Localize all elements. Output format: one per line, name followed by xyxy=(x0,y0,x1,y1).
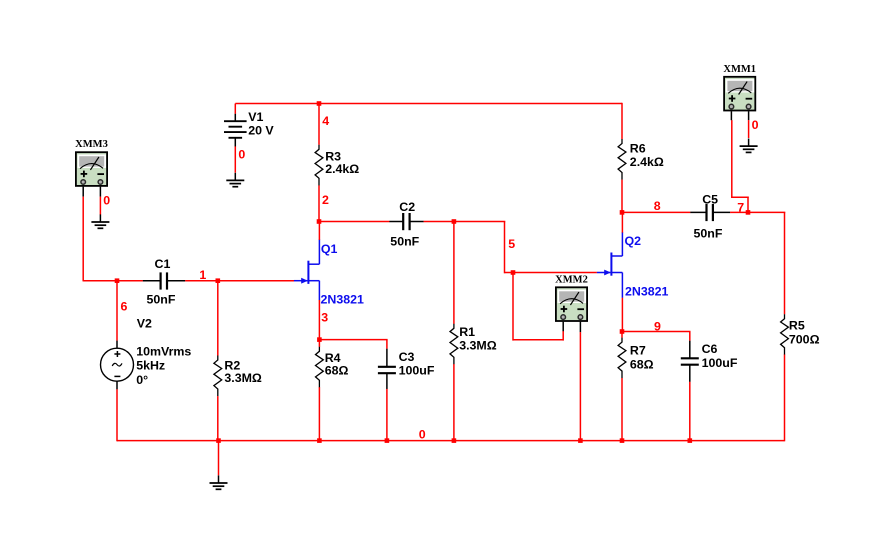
wire net 5 horizontal to Q2 gate xyxy=(505,272,597,274)
net label 0 at bottom rail xyxy=(419,428,426,442)
AC source V2 xyxy=(101,341,134,390)
capacitor C3 xyxy=(378,349,396,389)
net label 0 at V1 xyxy=(238,148,245,162)
designator label Q2 xyxy=(625,234,642,248)
svg-text:0: 0 xyxy=(238,148,245,162)
wire net 6 XMM3 plus vertical xyxy=(82,197,84,282)
svg-text:2.4kΩ: 2.4kΩ xyxy=(325,162,359,176)
junction net 0 at R4 xyxy=(317,438,322,443)
net label 3 xyxy=(321,311,328,325)
value label R2 3.3MOhm xyxy=(224,359,262,385)
net label 0 at XMM3 xyxy=(103,194,110,208)
wire net 0 below R4 xyxy=(318,387,320,441)
battery V1 xyxy=(224,114,247,147)
junction net 0 at ground xyxy=(216,438,221,443)
wire net 4 R3 top vertical xyxy=(318,103,320,145)
svg-text:1: 1 xyxy=(199,268,206,282)
wire net 4 top rail horizontal xyxy=(235,103,622,105)
svg-text:8: 8 xyxy=(654,199,661,213)
wire net 3 Q1 source vertical xyxy=(318,300,320,340)
svg-text:R1: R1 xyxy=(459,325,475,339)
value label R1 3.3MOhm xyxy=(459,325,497,353)
wire net 1 horizontal xyxy=(185,280,294,282)
Q1 source lead vertical xyxy=(318,281,320,301)
net label 7 xyxy=(737,201,744,215)
resistor R7 xyxy=(618,338,626,379)
Q1 drain lead vertical xyxy=(318,239,320,264)
wire net 0 below R7 xyxy=(621,378,623,441)
value label V1 20 V xyxy=(248,110,274,137)
XMM2 plus terminal lead xyxy=(562,322,564,332)
svg-text:3: 3 xyxy=(321,311,328,325)
value label C2 50nF xyxy=(390,200,419,248)
instrument label XMM2 xyxy=(555,274,588,285)
wire net 8 R6 bottom vertical xyxy=(621,180,623,214)
svg-text:4: 4 xyxy=(322,114,329,128)
svg-text:3.3MΩ: 3.3MΩ xyxy=(459,339,497,353)
svg-text:50nF: 50nF xyxy=(390,235,419,249)
svg-text:100uF: 100uF xyxy=(399,364,435,378)
wire net 0 below R5 xyxy=(784,355,786,442)
wire net 9 horizontal xyxy=(622,331,691,333)
svg-text:5: 5 xyxy=(508,237,515,251)
value label R4 68Ohm xyxy=(325,351,349,378)
svg-text:0: 0 xyxy=(103,194,110,208)
wire net 3 R4 top vertical xyxy=(318,340,320,347)
svg-text:50nF: 50nF xyxy=(694,227,723,241)
wire net 5 XMM2 plus vertical xyxy=(562,331,564,341)
value label R6 2.4kOhm xyxy=(630,142,664,170)
XMM3 plus terminal lead xyxy=(82,187,84,197)
XMM2 minus terminal lead xyxy=(579,322,581,333)
svg-text:20 V: 20 V xyxy=(248,123,274,137)
wire net 2 Q1 drain vertical xyxy=(318,222,320,240)
junction net 0 at C6 xyxy=(688,438,693,443)
svg-text:XMM1: XMM1 xyxy=(723,64,756,75)
resistor R4 xyxy=(316,347,324,388)
Q2 source lead vertical xyxy=(621,273,623,298)
net label 5 xyxy=(508,237,515,251)
capacitor C2 xyxy=(389,213,423,230)
wire net 7 R5 top vertical xyxy=(784,212,786,314)
wire net 0 below R1 xyxy=(453,364,455,441)
svg-text:100uF: 100uF xyxy=(702,356,738,370)
junction net 0 at C3 xyxy=(385,438,390,443)
svg-text:0°: 0° xyxy=(136,373,148,387)
instrument label XMM3 xyxy=(75,139,108,150)
multimeter XMM3 xyxy=(76,152,107,186)
svg-text:2.4kΩ: 2.4kΩ xyxy=(630,155,664,169)
net label 9 xyxy=(654,320,661,334)
wire net 6 V2 top vertical xyxy=(116,281,118,341)
wire net 4 R6 top vertical xyxy=(621,103,623,139)
svg-text:0: 0 xyxy=(419,428,426,442)
wire net 9 R7 top vertical xyxy=(621,332,623,338)
wire net 4 V1 top vertical xyxy=(234,104,236,114)
junction net 0 at R7 xyxy=(620,438,625,443)
resistor R5 xyxy=(781,314,789,355)
svg-text:XMM2: XMM2 xyxy=(555,274,588,285)
wire net 9 Q2 source vertical xyxy=(621,298,623,332)
net label 0 at XMM1 xyxy=(752,118,759,132)
multimeter XMM2 xyxy=(556,287,587,321)
wire net 7 horizontal xyxy=(730,211,785,213)
wire net 0 below V1 xyxy=(234,146,236,172)
wire net 0 below V2 xyxy=(116,389,118,441)
svg-text:3.3MΩ: 3.3MΩ xyxy=(224,371,262,385)
svg-text:C1: C1 xyxy=(155,257,171,271)
capacitor C6 xyxy=(681,341,699,382)
Q2 drain lead vertical xyxy=(621,232,623,256)
wire net 0 ground drop xyxy=(218,441,220,476)
svg-text:0: 0 xyxy=(752,118,759,132)
junction net 6 at V2 xyxy=(115,278,120,283)
junction net 5 at XMM2 tap xyxy=(511,270,516,275)
net label 2 xyxy=(322,193,329,207)
ground below bottom rail xyxy=(210,475,228,489)
wire net 2 R3 bottom vertical xyxy=(318,185,320,222)
wire net 6 horizontal xyxy=(83,280,143,282)
svg-text:Q1: Q1 xyxy=(321,242,338,256)
resistor R1 xyxy=(450,324,458,365)
svg-text:C5: C5 xyxy=(702,193,718,207)
wire net 0 bottom rail xyxy=(117,440,785,442)
svg-text:R7: R7 xyxy=(630,344,646,358)
wire net 1 R2 top vertical xyxy=(217,281,219,356)
wire net 0 XMM3 minus xyxy=(99,197,101,215)
value label C5 50nF xyxy=(694,193,723,241)
svg-text:R6: R6 xyxy=(630,142,646,156)
ground below XMM3 xyxy=(91,214,109,228)
svg-text:10mVrms: 10mVrms xyxy=(136,344,191,358)
resistor R3 xyxy=(315,145,323,186)
junction net 2 xyxy=(317,219,322,224)
svg-text:2N3821: 2N3821 xyxy=(321,293,365,307)
wire net 8 horizontal to C5 xyxy=(622,211,690,213)
capacitor C5 xyxy=(690,204,730,221)
junction net 4 at R3 xyxy=(317,101,322,106)
wire net 7 XMM1 branch horizontal xyxy=(731,196,749,198)
svg-text:6: 6 xyxy=(121,300,128,314)
net label 1 xyxy=(199,268,206,282)
net label 4 xyxy=(322,114,329,128)
svg-text:5kHz: 5kHz xyxy=(136,359,165,373)
junction net 1 at R2 xyxy=(216,278,221,283)
value label C3 100uF xyxy=(399,350,435,378)
junction net 0 at R1 xyxy=(452,438,457,443)
junction net 3 xyxy=(317,337,322,342)
wire net 5 XMM2 tap horizontal xyxy=(513,339,563,341)
wire net 5 vertical drop xyxy=(504,222,506,274)
value label R5 700Ohm xyxy=(789,319,820,347)
svg-text:68Ω: 68Ω xyxy=(630,358,654,372)
transistor Q1 xyxy=(294,261,320,284)
designator label Q1 xyxy=(321,242,338,256)
net label 6 xyxy=(121,300,128,314)
wire net 0 below R2 xyxy=(217,396,219,441)
wire net 5 horizontal upper xyxy=(424,221,506,223)
XMM1 minus terminal lead xyxy=(748,111,750,120)
svg-text:Q2: Q2 xyxy=(625,234,642,248)
value label Q1 2N3821 xyxy=(321,293,365,307)
junction net 8 xyxy=(620,210,625,215)
svg-text:50nF: 50nF xyxy=(147,293,176,307)
junction net 9 xyxy=(620,329,625,334)
wire net 0 below C6 xyxy=(689,382,691,442)
value label Q2 2N3821 xyxy=(625,285,669,299)
net label 8 xyxy=(654,199,661,213)
multimeter XMM1 xyxy=(724,77,755,111)
wire net 9 C6 top vertical xyxy=(689,332,691,341)
wire net 5 XMM2 tap vertical xyxy=(512,273,514,341)
svg-text:2N3821: 2N3821 xyxy=(625,285,669,299)
svg-text:R5: R5 xyxy=(789,319,805,333)
svg-text:C3: C3 xyxy=(399,350,415,364)
value label V2 10mVrms 5kHz 0deg xyxy=(136,317,191,387)
wire net 3 C3 top vertical xyxy=(386,340,388,349)
value label R7 68Ohm xyxy=(630,344,654,372)
XMM3 minus terminal lead xyxy=(99,187,101,197)
wire net 0 XMM1 minus xyxy=(748,120,750,138)
resistor R6 xyxy=(618,139,626,180)
svg-text:C6: C6 xyxy=(702,342,718,356)
svg-text:68Ω: 68Ω xyxy=(325,364,349,378)
wire net 7 XMM1 branch vertical xyxy=(747,197,749,213)
wire net 5 R1 top vertical xyxy=(453,222,455,324)
XMM1 plus terminal lead xyxy=(730,111,732,120)
svg-text:700Ω: 700Ω xyxy=(789,333,820,347)
svg-text:C2: C2 xyxy=(399,200,415,214)
wire net 8 Q2 drain vertical xyxy=(621,212,623,232)
wire net 0 below C3 xyxy=(386,389,388,441)
wire net 3 horizontal xyxy=(319,339,387,341)
svg-text:2: 2 xyxy=(322,193,329,207)
ground below V1 xyxy=(226,173,244,187)
ground below XMM1 xyxy=(740,139,758,153)
wire net 0 XMM2 minus vertical xyxy=(579,332,581,441)
svg-text:V2: V2 xyxy=(137,317,152,331)
transistor Q2 xyxy=(597,253,623,276)
junction net 7 xyxy=(746,210,751,215)
value label R3 2.4kOhm xyxy=(325,150,359,177)
capacitor C1 xyxy=(143,272,186,289)
value label C1 50nF xyxy=(147,257,176,307)
junction net 0 at XMM2 minus xyxy=(578,438,583,443)
instrument label XMM1 xyxy=(723,64,756,75)
svg-text:7: 7 xyxy=(737,201,744,215)
svg-text:XMM3: XMM3 xyxy=(75,139,108,150)
wire net 2 horizontal to C2 xyxy=(319,221,390,223)
resistor R2 xyxy=(214,356,222,397)
wire net 7 XMM1 plus vertical xyxy=(731,120,733,198)
svg-text:V1: V1 xyxy=(248,110,263,124)
junction net 5 at R1 xyxy=(452,219,457,224)
value label C6 100uF xyxy=(702,342,738,370)
